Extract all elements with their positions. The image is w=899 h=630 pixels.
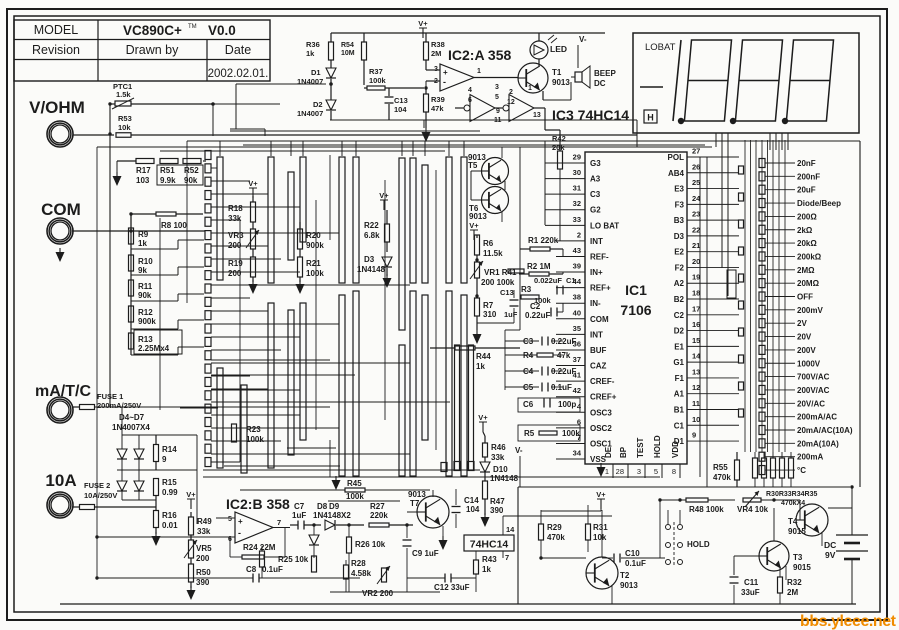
svg-text:C1: C1 xyxy=(566,276,576,285)
svg-text:D8: D8 xyxy=(317,502,328,511)
svg-text:C2: C2 xyxy=(674,311,685,320)
svg-text:10k: 10k xyxy=(593,533,607,542)
svg-text:D10: D10 xyxy=(493,465,508,474)
svg-text:IC2:B 358: IC2:B 358 xyxy=(226,496,290,512)
svg-text:C13: C13 xyxy=(394,96,408,105)
svg-text:90k: 90k xyxy=(138,291,152,300)
svg-text:15: 15 xyxy=(692,336,700,345)
svg-text:R1 220k: R1 220k xyxy=(528,236,559,245)
svg-text:20uF: 20uF xyxy=(797,186,816,195)
svg-text:R26 10k: R26 10k xyxy=(355,540,386,549)
svg-text:°C: °C xyxy=(797,466,806,475)
svg-text:1N4148: 1N4148 xyxy=(490,474,519,483)
svg-text:100p: 100p xyxy=(558,400,576,409)
svg-text:14: 14 xyxy=(506,525,515,534)
svg-text:COM: COM xyxy=(41,200,81,219)
svg-text:0.22uF: 0.22uF xyxy=(551,337,576,346)
svg-text:VR5: VR5 xyxy=(196,544,212,553)
svg-text:2V: 2V xyxy=(797,319,807,328)
svg-text:38: 38 xyxy=(573,293,581,302)
svg-text:12: 12 xyxy=(507,99,515,106)
svg-text:200V: 200V xyxy=(797,346,816,355)
svg-text:22: 22 xyxy=(692,225,700,234)
svg-text:900k: 900k xyxy=(138,317,156,326)
svg-text:470k: 470k xyxy=(547,533,565,542)
svg-text:V+: V+ xyxy=(186,490,196,499)
svg-text:0.022uF: 0.022uF xyxy=(534,276,562,285)
svg-text:7106: 7106 xyxy=(620,302,651,318)
svg-text:9V: 9V xyxy=(825,550,836,560)
svg-text:30: 30 xyxy=(573,168,581,177)
svg-text:1k: 1k xyxy=(138,239,147,248)
svg-text:18: 18 xyxy=(692,289,700,298)
svg-text:R42: R42 xyxy=(552,134,566,143)
svg-text:Revision: Revision xyxy=(32,43,80,57)
svg-text:VR3: VR3 xyxy=(228,231,244,240)
svg-text:2: 2 xyxy=(577,230,581,239)
svg-text:F1: F1 xyxy=(675,374,685,383)
svg-text:OSC3: OSC3 xyxy=(590,408,612,417)
svg-text:R6: R6 xyxy=(483,239,494,248)
svg-text:26: 26 xyxy=(692,162,700,171)
svg-text:R16: R16 xyxy=(162,511,177,520)
svg-text:BP: BP xyxy=(619,446,628,458)
svg-text:G3: G3 xyxy=(590,159,601,168)
svg-text:1: 1 xyxy=(477,68,481,75)
svg-text:R46: R46 xyxy=(491,443,506,452)
svg-text:10A/250V: 10A/250V xyxy=(84,491,117,500)
svg-text:310: 310 xyxy=(483,310,497,319)
svg-text:0.1uF: 0.1uF xyxy=(625,559,646,568)
svg-text:bbs.yleee.net: bbs.yleee.net xyxy=(800,613,897,630)
svg-text:27: 27 xyxy=(692,147,700,156)
svg-text:1000V: 1000V xyxy=(797,359,821,368)
svg-text:HOLD: HOLD xyxy=(653,435,662,458)
svg-text:700V/AC: 700V/AC xyxy=(797,373,830,382)
svg-text:33k: 33k xyxy=(228,214,242,223)
svg-text:100k: 100k xyxy=(369,76,387,85)
svg-text:TM: TM xyxy=(188,24,197,30)
svg-text:21: 21 xyxy=(692,241,700,250)
svg-text:7: 7 xyxy=(277,518,281,527)
svg-text:9013: 9013 xyxy=(620,581,638,590)
svg-text:R44: R44 xyxy=(476,352,491,361)
svg-text:1N4007: 1N4007 xyxy=(297,109,323,118)
svg-text:6.8k: 6.8k xyxy=(364,231,380,240)
svg-text:200mA/250V: 200mA/250V xyxy=(97,401,141,410)
svg-text:1k: 1k xyxy=(306,49,315,58)
svg-text:13: 13 xyxy=(692,367,700,376)
svg-text:IC3 74HC14: IC3 74HC14 xyxy=(552,107,629,123)
svg-text:R43: R43 xyxy=(482,555,497,564)
svg-text:20nF: 20nF xyxy=(797,159,816,168)
svg-text:4: 4 xyxy=(577,402,582,411)
svg-text:35: 35 xyxy=(573,324,581,333)
svg-text:9013: 9013 xyxy=(469,212,487,221)
svg-text:33uF: 33uF xyxy=(741,588,760,597)
svg-text:200: 200 xyxy=(228,241,242,250)
svg-text:C3: C3 xyxy=(590,190,601,199)
svg-text:BUF: BUF xyxy=(590,346,607,355)
svg-text:11: 11 xyxy=(494,117,502,124)
svg-text:9k: 9k xyxy=(138,266,147,275)
svg-text:V+: V+ xyxy=(379,191,389,200)
svg-text:V0.0: V0.0 xyxy=(208,23,236,38)
svg-text:R9: R9 xyxy=(138,230,149,239)
svg-text:390: 390 xyxy=(490,506,504,515)
svg-text:R5: R5 xyxy=(524,429,535,438)
svg-text:C13: C13 xyxy=(500,288,514,297)
svg-text:16: 16 xyxy=(692,320,700,329)
svg-text:74HC14: 74HC14 xyxy=(470,539,509,551)
svg-text:CAZ: CAZ xyxy=(590,362,607,371)
svg-text:E1: E1 xyxy=(674,342,684,351)
svg-text:R18: R18 xyxy=(228,204,243,213)
svg-text:C11: C11 xyxy=(744,578,759,587)
svg-text:R17: R17 xyxy=(136,166,151,175)
svg-text:R38: R38 xyxy=(431,40,445,49)
svg-text:37: 37 xyxy=(573,355,581,364)
svg-text:17: 17 xyxy=(692,304,700,313)
svg-text:CREF+: CREF+ xyxy=(590,393,617,402)
svg-text:A2: A2 xyxy=(674,279,685,288)
svg-text:D9: D9 xyxy=(329,502,340,511)
svg-text:1.5k: 1.5k xyxy=(116,90,131,99)
svg-text:33: 33 xyxy=(573,215,581,224)
svg-text:R55: R55 xyxy=(713,463,728,472)
svg-text:220k: 220k xyxy=(370,511,388,520)
svg-text:BEEP: BEEP xyxy=(594,69,616,78)
svg-text:2MΩ: 2MΩ xyxy=(797,266,815,275)
svg-text:90k: 90k xyxy=(184,176,198,185)
svg-text:25: 25 xyxy=(692,178,700,187)
svg-text:VC890C+: VC890C+ xyxy=(123,23,182,38)
svg-text:20: 20 xyxy=(692,257,700,266)
svg-text:R48 100k: R48 100k xyxy=(689,505,724,514)
svg-text:E2: E2 xyxy=(674,248,684,257)
svg-text:R50: R50 xyxy=(196,568,211,577)
svg-text:0.22uF: 0.22uF xyxy=(525,311,550,320)
svg-text:9: 9 xyxy=(496,108,500,115)
svg-text:V+: V+ xyxy=(248,179,258,188)
svg-text:20V: 20V xyxy=(797,333,812,342)
svg-text:20V/AC: 20V/AC xyxy=(797,399,825,408)
svg-text:42: 42 xyxy=(573,386,581,395)
svg-text:IC2:A 358: IC2:A 358 xyxy=(448,47,512,63)
svg-text:A3: A3 xyxy=(590,175,601,184)
svg-text:C2: C2 xyxy=(530,302,541,311)
svg-text:VDD: VDD xyxy=(671,441,680,458)
svg-text:R30R33R34R35: R30R33R34R35 xyxy=(766,491,817,498)
svg-text:R13: R13 xyxy=(138,335,153,344)
svg-text:3: 3 xyxy=(495,84,499,91)
svg-text:2kΩ: 2kΩ xyxy=(797,226,813,235)
svg-text:R14: R14 xyxy=(162,445,177,454)
svg-text:MODEL: MODEL xyxy=(34,23,79,37)
svg-text:VR4 10k: VR4 10k xyxy=(737,505,769,514)
svg-text:1k: 1k xyxy=(476,362,485,371)
svg-text:IN-: IN- xyxy=(590,299,601,308)
svg-text:2M: 2M xyxy=(431,49,441,58)
svg-text:-: - xyxy=(443,77,446,87)
svg-text:R11: R11 xyxy=(138,282,153,291)
svg-text:200nF: 200nF xyxy=(797,172,820,181)
svg-text:11: 11 xyxy=(692,399,700,408)
svg-text:900k: 900k xyxy=(306,241,324,250)
svg-text:100k: 100k xyxy=(346,492,364,501)
svg-text:R23: R23 xyxy=(246,425,261,434)
svg-text:100k: 100k xyxy=(306,269,324,278)
svg-text:34: 34 xyxy=(573,449,582,458)
svg-text:9013: 9013 xyxy=(552,78,570,87)
svg-text:REF+: REF+ xyxy=(590,284,611,293)
svg-text:TEST: TEST xyxy=(636,437,645,458)
svg-text:104: 104 xyxy=(466,505,480,514)
svg-text:D2: D2 xyxy=(674,327,685,336)
svg-text:23: 23 xyxy=(692,210,700,219)
svg-text:D3: D3 xyxy=(674,232,685,241)
svg-text:9013: 9013 xyxy=(408,490,426,499)
svg-text:T1: T1 xyxy=(552,68,562,77)
svg-text:DC: DC xyxy=(824,540,836,550)
svg-text:19: 19 xyxy=(692,273,700,282)
svg-text:C1: C1 xyxy=(674,421,685,430)
svg-text:20mA/AC(10A): 20mA/AC(10A) xyxy=(797,426,853,435)
svg-text:390: 390 xyxy=(196,578,210,587)
svg-text:+: + xyxy=(443,68,448,77)
svg-text:CREF-: CREF- xyxy=(590,377,615,386)
svg-text:F3: F3 xyxy=(675,200,685,209)
svg-text:REF-: REF- xyxy=(590,252,609,261)
svg-text:100k: 100k xyxy=(562,429,580,438)
svg-text:R31: R31 xyxy=(593,523,608,532)
svg-text:10A: 10A xyxy=(45,471,76,490)
svg-text:R8 100: R8 100 xyxy=(161,221,187,230)
svg-text:9015: 9015 xyxy=(788,527,806,536)
svg-text:B1: B1 xyxy=(674,405,685,414)
svg-text:9: 9 xyxy=(692,431,696,440)
svg-text:R39: R39 xyxy=(431,95,445,104)
svg-text:V+: V+ xyxy=(596,490,606,499)
svg-text:OSC2: OSC2 xyxy=(590,424,612,433)
svg-text:200: 200 xyxy=(196,554,210,563)
svg-text:C3: C3 xyxy=(523,337,534,346)
svg-text:LO BAT: LO BAT xyxy=(590,221,619,230)
svg-text:POL: POL xyxy=(668,153,685,162)
svg-text:0.01: 0.01 xyxy=(162,521,178,530)
svg-text:R27: R27 xyxy=(370,502,385,511)
svg-text:40: 40 xyxy=(573,308,581,317)
svg-text:200 100k: 200 100k xyxy=(481,278,515,287)
svg-text:R10: R10 xyxy=(138,257,153,266)
svg-text:1N4007X4: 1N4007X4 xyxy=(112,423,150,432)
svg-text:3: 3 xyxy=(637,467,641,476)
svg-text:C14: C14 xyxy=(464,496,479,505)
svg-text:104: 104 xyxy=(394,105,407,114)
svg-text:R36: R36 xyxy=(306,40,320,49)
svg-text:H: H xyxy=(647,113,654,123)
svg-text:V-: V- xyxy=(515,446,523,455)
svg-text:A1: A1 xyxy=(674,390,685,399)
svg-text:100k: 100k xyxy=(246,435,264,444)
svg-text:1k: 1k xyxy=(482,565,491,574)
svg-text:1uF: 1uF xyxy=(292,511,306,520)
svg-text:43: 43 xyxy=(573,246,581,255)
svg-text:20mA(10A): 20mA(10A) xyxy=(797,439,839,448)
svg-text:R4: R4 xyxy=(523,351,534,360)
svg-text:0.1uF: 0.1uF xyxy=(551,383,572,392)
svg-text:V/OHM: V/OHM xyxy=(29,98,85,117)
svg-text:0.22uF: 0.22uF xyxy=(551,367,576,376)
svg-text:V+: V+ xyxy=(478,413,488,422)
svg-text:R21: R21 xyxy=(306,259,321,268)
svg-text:4: 4 xyxy=(468,87,472,94)
svg-text:1uF: 1uF xyxy=(504,310,518,319)
svg-text:+: + xyxy=(238,517,243,526)
svg-text:200mA/AC: 200mA/AC xyxy=(797,413,837,422)
svg-text:200mV: 200mV xyxy=(797,306,823,315)
svg-text:2.25Mx4: 2.25Mx4 xyxy=(138,344,170,353)
svg-text:13: 13 xyxy=(533,112,541,119)
svg-text:R2 1M: R2 1M xyxy=(527,262,551,271)
svg-text:D3: D3 xyxy=(364,255,375,264)
svg-text:R20: R20 xyxy=(306,231,321,240)
svg-text:R22: R22 xyxy=(364,221,379,230)
svg-text:G2: G2 xyxy=(590,206,601,215)
svg-text:32: 32 xyxy=(573,199,581,208)
svg-text:OFF: OFF xyxy=(797,293,813,302)
svg-text:5: 5 xyxy=(654,467,658,476)
svg-text:R54: R54 xyxy=(341,42,354,49)
svg-text:2M: 2M xyxy=(787,588,798,597)
svg-text:IN+: IN+ xyxy=(590,268,603,277)
svg-text:R37: R37 xyxy=(369,67,383,76)
svg-text:INT: INT xyxy=(590,237,603,246)
svg-text:10k: 10k xyxy=(118,123,131,132)
svg-text:1N4007: 1N4007 xyxy=(297,77,323,86)
svg-text:9: 9 xyxy=(162,455,167,464)
svg-text:R12: R12 xyxy=(138,308,153,317)
svg-text:B2: B2 xyxy=(674,295,685,304)
svg-text:R19: R19 xyxy=(228,259,243,268)
svg-text:C12 33uF: C12 33uF xyxy=(434,583,470,592)
svg-text:T4: T4 xyxy=(788,517,798,526)
svg-text:T3: T3 xyxy=(793,553,803,562)
svg-text:AB4: AB4 xyxy=(668,169,685,178)
svg-text:C4: C4 xyxy=(523,367,534,376)
svg-text:20kΩ: 20kΩ xyxy=(797,239,817,248)
svg-text:R29: R29 xyxy=(547,523,562,532)
svg-text:20MΩ: 20MΩ xyxy=(797,279,820,288)
svg-text:R15: R15 xyxy=(162,478,177,487)
svg-text:D4~D7: D4~D7 xyxy=(119,413,145,422)
svg-text:200mA: 200mA xyxy=(797,453,823,462)
svg-text:5: 5 xyxy=(228,516,232,523)
svg-text:2002.02.01.: 2002.02.01. xyxy=(208,68,269,80)
svg-text:Diode/Beep: Diode/Beep xyxy=(797,199,841,208)
svg-text:DE: DE xyxy=(604,446,613,458)
svg-text:-: - xyxy=(238,528,241,538)
svg-text:LED: LED xyxy=(550,44,567,54)
svg-text:0.99: 0.99 xyxy=(162,488,178,497)
svg-text:DC: DC xyxy=(594,79,606,88)
svg-text:28: 28 xyxy=(616,467,624,476)
svg-text:103: 103 xyxy=(136,176,150,185)
svg-text:7: 7 xyxy=(505,553,509,562)
svg-text:200kΩ: 200kΩ xyxy=(797,252,822,261)
svg-text:470kX4: 470kX4 xyxy=(781,500,805,507)
svg-text:0.1uF: 0.1uF xyxy=(262,565,283,574)
svg-text:C7: C7 xyxy=(294,502,305,511)
svg-text:IC1: IC1 xyxy=(625,282,647,298)
svg-text:33k: 33k xyxy=(197,527,211,536)
svg-text:INT: INT xyxy=(590,330,603,339)
svg-text:1: 1 xyxy=(528,85,532,92)
svg-text:R28: R28 xyxy=(351,559,366,568)
svg-text:200Ω: 200Ω xyxy=(797,212,817,221)
svg-text:VR2 200: VR2 200 xyxy=(362,589,394,598)
svg-text:G1: G1 xyxy=(673,358,684,367)
svg-text:1N4148X2: 1N4148X2 xyxy=(313,511,351,520)
svg-text:29: 29 xyxy=(573,153,581,162)
svg-text:39: 39 xyxy=(573,262,581,271)
svg-text:9.9k: 9.9k xyxy=(160,176,176,185)
svg-text:470k: 470k xyxy=(713,473,731,482)
svg-text:12: 12 xyxy=(692,383,700,392)
svg-text:R25 10k: R25 10k xyxy=(278,555,309,564)
svg-text:T2: T2 xyxy=(620,571,630,580)
svg-text:4.58k: 4.58k xyxy=(351,569,372,578)
svg-text:C10: C10 xyxy=(625,549,640,558)
svg-text:11.5k: 11.5k xyxy=(483,249,503,258)
svg-text:200V/AC: 200V/AC xyxy=(797,386,830,395)
svg-text:R7: R7 xyxy=(483,301,494,310)
svg-text:HOLD: HOLD xyxy=(687,540,710,549)
svg-text:R53: R53 xyxy=(118,114,132,123)
svg-text:V-: V- xyxy=(579,35,587,44)
svg-text:10: 10 xyxy=(692,415,700,424)
svg-text:1: 1 xyxy=(605,467,609,476)
svg-text:C9 1uF: C9 1uF xyxy=(412,549,439,558)
svg-text:1N4148: 1N4148 xyxy=(357,265,386,274)
svg-text:C6: C6 xyxy=(523,400,534,409)
svg-text:200: 200 xyxy=(228,269,242,278)
svg-text:47k: 47k xyxy=(431,104,444,113)
svg-text:Drawn by: Drawn by xyxy=(126,43,180,57)
svg-text:B3: B3 xyxy=(674,216,685,225)
svg-text:R32: R32 xyxy=(787,578,802,587)
svg-text:V+: V+ xyxy=(418,19,428,28)
svg-text:33k: 33k xyxy=(491,453,505,462)
svg-text:E3: E3 xyxy=(674,185,684,194)
svg-text:C5: C5 xyxy=(523,383,534,392)
svg-text:LOBAT: LOBAT xyxy=(645,42,676,53)
svg-text:31: 31 xyxy=(573,184,581,193)
svg-text:5: 5 xyxy=(495,94,499,101)
svg-text:R49: R49 xyxy=(197,517,212,526)
svg-text:47k: 47k xyxy=(557,351,571,360)
svg-text:D2: D2 xyxy=(313,100,323,109)
svg-text:R47: R47 xyxy=(490,497,505,506)
svg-text:R45: R45 xyxy=(347,479,362,488)
svg-text:V+: V+ xyxy=(469,221,479,230)
svg-text:8: 8 xyxy=(672,467,676,476)
svg-text:F2: F2 xyxy=(675,263,685,272)
svg-text:T5: T5 xyxy=(468,161,478,170)
svg-text:9015: 9015 xyxy=(793,563,811,572)
svg-text:10M: 10M xyxy=(341,50,355,57)
svg-text:R52: R52 xyxy=(184,166,199,175)
